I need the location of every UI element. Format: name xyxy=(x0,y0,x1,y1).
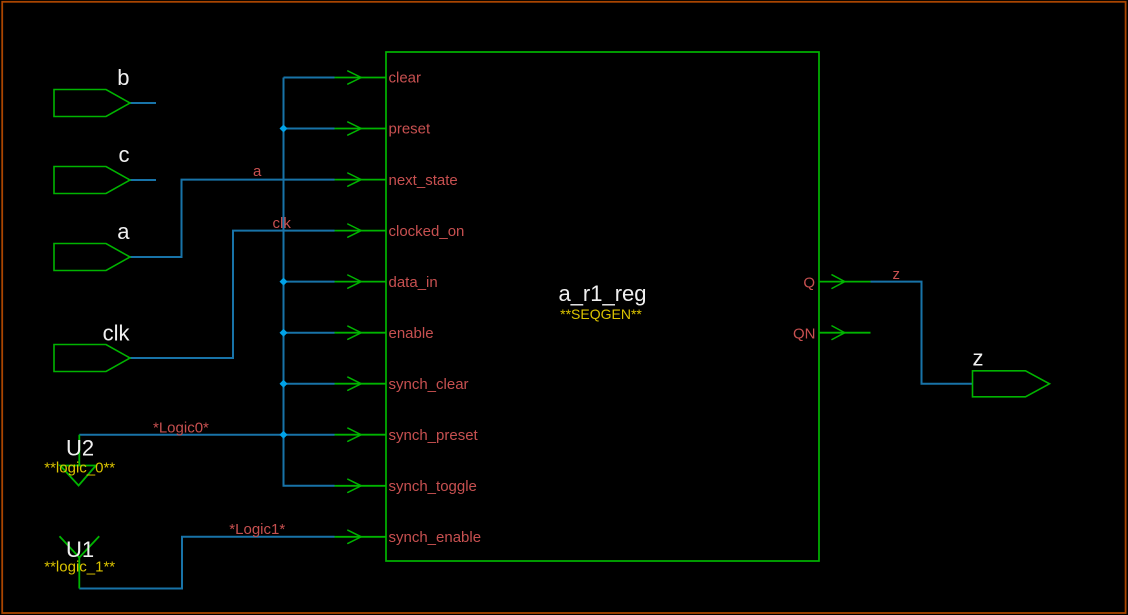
svg-text:*Logic0*: *Logic0* xyxy=(153,419,209,436)
svg-text:Q: Q xyxy=(803,275,815,292)
svg-text:*Logic1*: *Logic1* xyxy=(229,521,285,538)
svg-text:synch_toggle: synch_toggle xyxy=(389,478,477,495)
svg-text:synch_clear: synch_clear xyxy=(389,376,469,393)
svg-text:clk: clk xyxy=(273,215,292,232)
svg-text:enable: enable xyxy=(389,325,434,342)
svg-text:preset: preset xyxy=(389,121,432,138)
svg-text:data_in: data_in xyxy=(389,274,438,291)
svg-text:clocked_on: clocked_on xyxy=(389,223,465,240)
svg-text:**logic_0**: **logic_0** xyxy=(44,460,115,477)
svg-text:clk: clk xyxy=(103,321,131,346)
svg-text:U2: U2 xyxy=(66,436,94,461)
svg-text:QN: QN xyxy=(793,326,816,343)
svg-text:next_state: next_state xyxy=(389,172,458,189)
svg-text:synch_preset: synch_preset xyxy=(389,427,479,444)
svg-text:**SEQGEN**: **SEQGEN** xyxy=(560,306,642,322)
svg-text:a: a xyxy=(253,163,262,180)
svg-text:b: b xyxy=(117,65,129,90)
svg-text:z: z xyxy=(973,346,984,371)
svg-text:a: a xyxy=(117,219,130,244)
svg-text:z: z xyxy=(893,266,901,283)
svg-text:**logic_1**: **logic_1** xyxy=(44,559,115,576)
svg-text:a_r1_reg: a_r1_reg xyxy=(558,281,646,306)
svg-text:clear: clear xyxy=(389,70,422,87)
svg-text:c: c xyxy=(119,142,130,167)
svg-text:synch_enable: synch_enable xyxy=(389,529,482,546)
